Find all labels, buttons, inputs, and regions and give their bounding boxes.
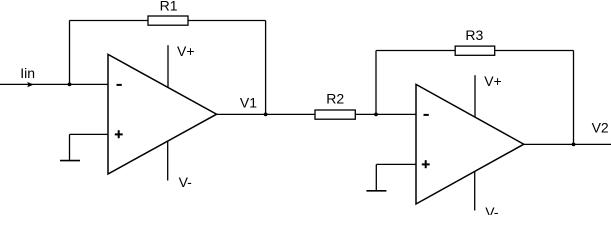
ground GND2 [366,190,386,192]
svg-text:Iin: Iin [20,65,35,81]
svg-text:V1: V1 [240,95,257,111]
wire feedback1 left vertical [69,21,71,85]
wire feedback1 top right [188,20,266,22]
pin V- U2 [474,171,476,211]
op-amp U1 [108,54,217,174]
wire input Iin [0,83,108,85]
resistor R1 [148,16,188,25]
pin V+ U2 [474,75,476,117]
wire feedback2 top right [495,50,574,52]
svg-text:R3: R3 [465,27,483,43]
pin plus U1 [115,130,123,138]
pin V+ U1 [167,45,169,87]
node V1 [264,113,268,117]
svg-text:V2: V2 [592,120,609,136]
pin minus U1 [117,84,122,86]
resistor R2 [315,110,355,119]
wire plus-input U2 [376,164,416,190]
node input junction [68,83,72,87]
wire feedback2 left vertical [375,51,377,115]
pin V- U1 [167,141,169,181]
wire output U2 [524,143,611,145]
node V2 [572,143,576,147]
wire feedback2 top left [376,50,455,52]
svg-text:R1: R1 [160,0,178,14]
op-amp U2 [416,84,524,204]
pin minus U2 [424,114,429,116]
ground GND1 [60,160,80,162]
svg-text:V-: V- [179,174,193,190]
wire feedback1 top left [70,20,149,22]
svg-text:V+: V+ [484,73,502,89]
arrowhead input current direction [27,82,34,87]
svg-text:V+: V+ [177,43,195,59]
wire plus-input U1 [70,134,109,160]
wire feedback2 right vertical [573,51,575,145]
wire feedback1 right vertical [265,21,267,115]
node U2 input junction [374,113,378,117]
wire R2 to U2 minus input [355,113,416,115]
resistor R3 [455,46,495,55]
pin plus U2 [422,160,430,168]
svg-text:V-: V- [485,204,499,215]
wire output U1 to R2 [217,113,315,115]
svg-text:R2: R2 [326,90,344,106]
